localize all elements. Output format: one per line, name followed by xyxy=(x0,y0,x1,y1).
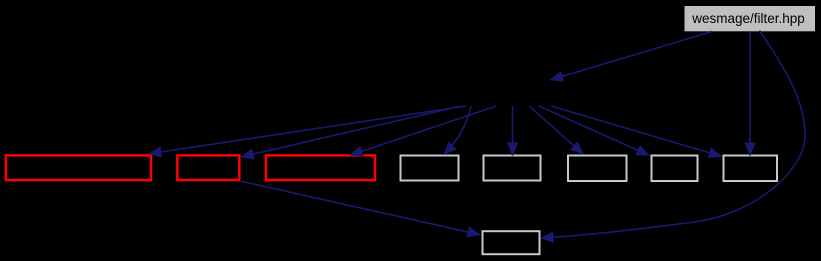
edge root -> grey box 5 (vertical) xyxy=(749,32,751,156)
edge root -> bottom box (long right curve) xyxy=(541,31,806,239)
edge center -> grey box 4 xyxy=(539,106,650,156)
edge red box 2 -> bottom box xyxy=(240,181,481,235)
node red box 3 (truncated, red outline) xyxy=(266,155,375,180)
edge center -> red box 3 xyxy=(350,106,497,155)
node red box 1 (truncated, red outline) xyxy=(6,155,151,180)
edge root -> center node xyxy=(550,32,712,81)
svg-text:wesmage/filter.hpp: wesmage/filter.hpp xyxy=(691,11,805,26)
node bottom box xyxy=(483,231,540,254)
edge center -> red box 2 xyxy=(241,106,461,157)
edge center -> grey box 1 xyxy=(444,106,472,155)
node red box 2 (truncated, red outline) xyxy=(177,155,239,180)
node grey box 1 xyxy=(401,156,459,181)
node center (invisible black-on-black include node) xyxy=(453,81,568,106)
edge center -> red box 1 xyxy=(149,106,467,154)
edge center -> grey box 3 xyxy=(529,106,584,154)
node grey box 4 xyxy=(652,156,698,182)
edge center -> grey box 2 (vertical) xyxy=(512,106,514,156)
node wesmage/filter.hpp (root, grey filled) xyxy=(685,6,816,31)
edge center -> grey box 5 xyxy=(551,106,722,157)
node grey box 5 xyxy=(724,156,778,182)
node grey box 3 xyxy=(568,156,627,182)
node grey box 2 xyxy=(484,156,541,181)
